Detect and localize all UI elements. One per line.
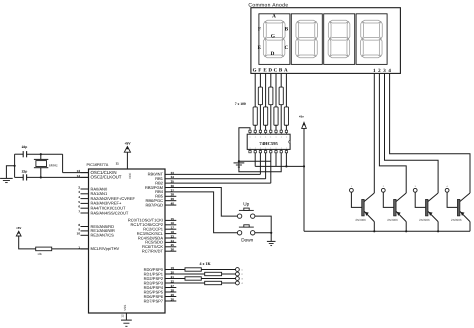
svg-text:2N3906: 2N3906 bbox=[451, 218, 462, 222]
svg-text:1: 1 bbox=[265, 136, 266, 139]
svg-text:1: 1 bbox=[286, 136, 287, 139]
svg-text:A: A bbox=[272, 13, 276, 19]
svg-text:MCLR/Vpp/THV: MCLR/Vpp/THV bbox=[91, 246, 120, 251]
svg-text:PIC16F877A: PIC16F877A bbox=[87, 163, 109, 167]
svg-text:F: F bbox=[258, 26, 261, 32]
svg-text:D: D bbox=[268, 68, 272, 74]
svg-text:1: 1 bbox=[255, 136, 256, 139]
svg-text:F: F bbox=[258, 68, 261, 74]
svg-text:G: G bbox=[253, 68, 257, 74]
svg-text:G: G bbox=[271, 33, 275, 39]
svg-text:A: A bbox=[284, 68, 288, 74]
svg-text:1: 1 bbox=[260, 136, 261, 139]
svg-text:OSC2/CLKOUT: OSC2/CLKOUT bbox=[91, 175, 122, 180]
svg-text:RC7/RX/DT: RC7/RX/DT bbox=[142, 249, 164, 254]
svg-text:7 x 100: 7 x 100 bbox=[235, 102, 246, 106]
svg-text:10k: 10k bbox=[37, 252, 42, 256]
svg-text:4 x 1K: 4 x 1K bbox=[199, 261, 211, 266]
svg-text:+5v: +5v bbox=[299, 114, 304, 118]
svg-text:D: D bbox=[271, 51, 275, 57]
svg-text:22p: 22p bbox=[22, 145, 28, 149]
svg-text:RB7/PGD: RB7/PGD bbox=[145, 202, 163, 207]
svg-text:1: 1 bbox=[276, 136, 277, 139]
svg-text:2N3906: 2N3906 bbox=[387, 218, 398, 222]
svg-text:E: E bbox=[258, 45, 262, 51]
svg-text:VSS: VSS bbox=[123, 305, 127, 311]
svg-text:C: C bbox=[285, 45, 289, 51]
svg-text:2N3906: 2N3906 bbox=[355, 218, 366, 222]
svg-text:RA5/AN4/SS/C2OUT: RA5/AN4/SS/C2OUT bbox=[91, 210, 129, 215]
svg-text:C: C bbox=[274, 68, 278, 74]
svg-text:+5V: +5V bbox=[124, 141, 131, 145]
svg-text:2N3906: 2N3906 bbox=[419, 218, 430, 222]
svg-text:1: 1 bbox=[281, 146, 282, 149]
svg-text:1: 1 bbox=[270, 146, 271, 149]
svg-text:RE2/AN7/CS: RE2/AN7/CS bbox=[91, 233, 115, 238]
svg-text:74HC595: 74HC595 bbox=[259, 141, 278, 146]
svg-text:1: 1 bbox=[286, 146, 287, 149]
svg-text:Up: Up bbox=[243, 201, 249, 206]
svg-text:1: 1 bbox=[250, 136, 251, 139]
svg-text:1: 1 bbox=[250, 146, 251, 149]
svg-text:12: 12 bbox=[121, 314, 125, 318]
svg-text:Down: Down bbox=[241, 237, 253, 242]
svg-text:Common Anode: Common Anode bbox=[248, 3, 288, 9]
svg-text:RD7/PSP7: RD7/PSP7 bbox=[144, 298, 164, 303]
svg-text:1: 1 bbox=[281, 136, 282, 139]
svg-text:VCC: VCC bbox=[128, 172, 132, 179]
svg-text:1: 1 bbox=[260, 146, 261, 149]
svg-text:+5V: +5V bbox=[16, 226, 21, 230]
svg-text:B: B bbox=[285, 26, 289, 32]
svg-text:11: 11 bbox=[116, 161, 120, 165]
svg-text:10: 10 bbox=[77, 232, 81, 236]
svg-text:1: 1 bbox=[270, 136, 271, 139]
svg-text:1: 1 bbox=[276, 146, 277, 149]
svg-text:1: 1 bbox=[255, 146, 256, 149]
svg-text:6MHz: 6MHz bbox=[49, 163, 58, 167]
svg-text:22p: 22p bbox=[22, 170, 28, 174]
svg-text:1: 1 bbox=[265, 146, 266, 149]
